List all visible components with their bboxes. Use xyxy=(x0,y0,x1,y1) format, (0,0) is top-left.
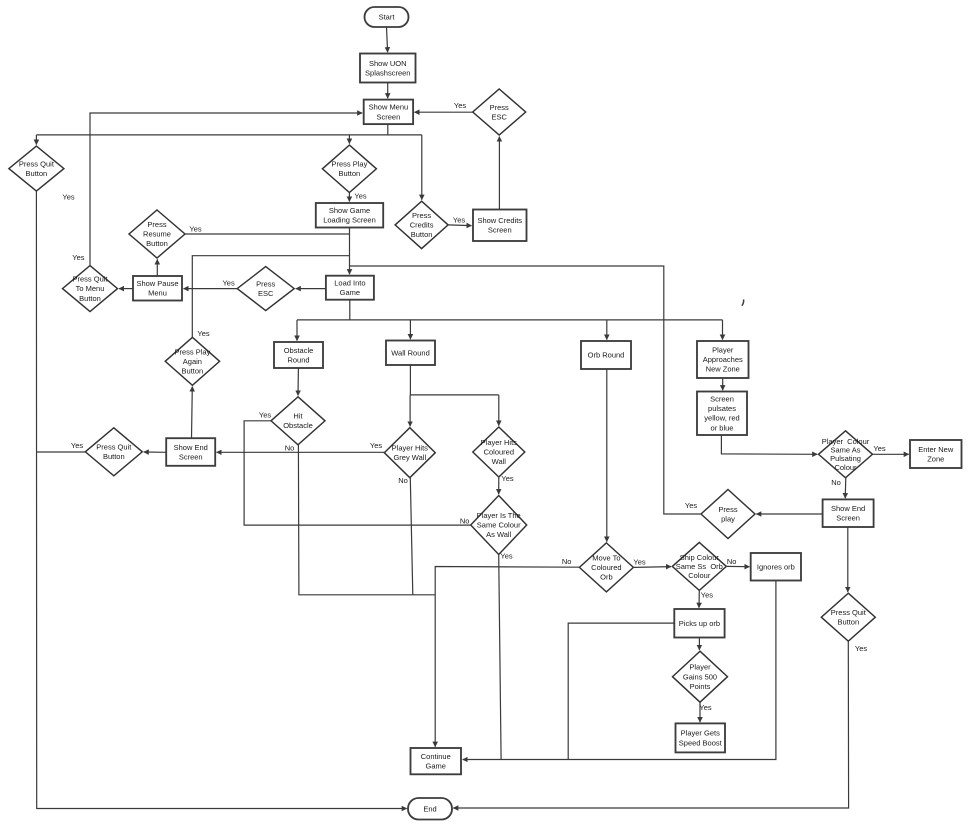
wire Press Resume Button yes join xyxy=(185,225,350,235)
wire Press ESC yes to Show Menu Screen xyxy=(415,101,473,112)
wire Move To Coloured Orb yes to Ship Colour diamond xyxy=(633,558,671,568)
wire Move To Coloured Orb no to Continue Game xyxy=(435,557,579,747)
svg-text:Yes: Yes xyxy=(62,193,74,202)
svg-text:No: No xyxy=(562,557,572,566)
wire Show Menu Screen branch rail xyxy=(36,124,421,135)
process Show End Screen (left) xyxy=(166,438,215,466)
wire Show End Screen (left) to Press Quit Button (mid left) xyxy=(144,451,166,453)
decision Press Quit Button (top left) xyxy=(9,146,64,191)
wire Player Hits Grey Wall yes to Show End Screen xyxy=(217,441,385,452)
decision Press Quit Button (mid left) xyxy=(85,428,142,476)
wire Press Play Again Button yes join xyxy=(192,256,349,338)
svg-text:Player HitsGrey Wall: Player HitsGrey Wall xyxy=(392,444,429,463)
process Show End Screen (right) xyxy=(823,499,874,527)
svg-text:Orb Round: Orb Round xyxy=(588,351,625,360)
label No of Player Is The Same Colour As Wall xyxy=(460,517,470,526)
svg-text:Yes: Yes xyxy=(699,703,711,712)
svg-text:ObstacleRound: ObstacleRound xyxy=(284,346,314,365)
svg-text:Wall Round: Wall Round xyxy=(391,348,430,357)
wire Player Is The Same Colour As Wall yes down xyxy=(499,552,513,760)
terminator Start xyxy=(365,7,409,27)
svg-text:Yes: Yes xyxy=(453,216,465,225)
svg-text:Picks up orb: Picks up orb xyxy=(679,619,720,628)
decision Press Play Again Button xyxy=(165,337,219,385)
process Player Approaches New Zone xyxy=(697,341,749,378)
wire Hit Obstacle no down xyxy=(285,444,435,595)
decision Move To Coloured Orb xyxy=(579,543,633,592)
svg-text:PressESC: PressESC xyxy=(490,103,509,122)
wire Start to Show UON Splashscreen xyxy=(387,27,388,52)
decision Hit Obstacle xyxy=(271,397,325,445)
wire Picks up orb to Continue Game join xyxy=(568,623,674,759)
wire Show UON Splashscreen to Show Menu Screen xyxy=(387,83,389,99)
svg-text:Yes: Yes xyxy=(633,558,645,567)
svg-text:Ignores orb: Ignores orb xyxy=(757,562,795,571)
wire split to Player Hits Coloured Wall xyxy=(498,395,500,426)
svg-text:Player GetsSpeed Boost: Player GetsSpeed Boost xyxy=(679,729,723,748)
decision Press Quit Button (bottom right) xyxy=(821,593,875,641)
svg-text:Yes: Yes xyxy=(685,501,697,510)
process Picks up orb xyxy=(674,609,724,638)
wire Ship Colour yes to Picks up orb xyxy=(699,590,713,607)
svg-text:Yes: Yes xyxy=(354,191,366,200)
svg-text:Yes: Yes xyxy=(873,444,885,453)
wire Obstacle Round to Hit Obstacle xyxy=(297,368,299,395)
wire rail to Orb Round xyxy=(606,320,608,340)
svg-text:Yes: Yes xyxy=(222,279,234,288)
wire rail to Press Credits Button xyxy=(421,135,423,200)
svg-text:Yes: Yes xyxy=(855,644,867,653)
process Show Game Loading Screen xyxy=(316,203,383,228)
wire Player Hits Coloured Wall yes to Player Is The Same Colour As Wall xyxy=(499,474,514,494)
process Player Gets Speed Boost xyxy=(676,723,726,752)
svg-text:Show UONSplashscreen: Show UONSplashscreen xyxy=(365,59,410,78)
decision Player Is The Same Colour As Wall xyxy=(471,496,527,555)
wire Show Pause Menu to Press Resume Button xyxy=(156,259,158,275)
wire Press Quit Button (top left) yes to End (left) xyxy=(36,191,406,808)
process Show Pause Menu xyxy=(133,276,182,301)
process Obstacle Round xyxy=(274,342,323,368)
wire Ship Colour no to Ignores orb xyxy=(726,557,749,567)
svg-text:Yes: Yes xyxy=(454,101,466,110)
svg-text:No: No xyxy=(398,476,408,485)
wire Show Game Loading Screen to Load Into Game xyxy=(349,228,351,275)
wire rail to Wall Round xyxy=(409,320,411,339)
process Orb Round xyxy=(581,341,631,369)
terminator End xyxy=(408,798,452,820)
wire Orb Round to Move To Coloured Orb xyxy=(606,369,608,541)
decision Press Play Button xyxy=(322,145,376,192)
process Ignores orb xyxy=(751,553,801,581)
wire Hit Obstacle yes to Player Is The Same Colour As Wall xyxy=(244,410,470,525)
decision Press ESC (pause) xyxy=(237,267,294,311)
svg-text:Yes: Yes xyxy=(71,441,83,450)
decision Player Gains 500 Points xyxy=(673,651,728,702)
decision Press Quit To Menu Button xyxy=(63,266,118,312)
svg-text:PressESC: PressESC xyxy=(256,279,275,298)
decision Press ESC (top) xyxy=(473,89,526,135)
wire Picks up orb to Player Gains 500 Points xyxy=(698,638,700,650)
decision Player Colour Same As Pulsating Colour xyxy=(819,431,873,478)
svg-text:PressCreditsButton: PressCreditsButton xyxy=(410,211,434,239)
decision Press Credits Button xyxy=(395,201,448,248)
wire Press play yes join xyxy=(350,266,701,514)
wire Screen pulsates to Player Colour diamond xyxy=(721,435,817,454)
svg-text:End: End xyxy=(423,804,436,813)
wire Show End Screen (right) to Press Quit Button (bottom right) xyxy=(847,527,849,592)
process Enter New Zone xyxy=(910,440,962,468)
svg-text:Yes: Yes xyxy=(197,329,209,338)
wire Press Quit Button (mid left) yes join xyxy=(37,441,85,452)
wire Player Colour yes to Enter New Zone xyxy=(873,444,909,454)
wire Player Gains 500 Points yes to Player Gets Speed Boost xyxy=(699,702,711,722)
decision Press play xyxy=(701,490,755,539)
svg-text:Yes: Yes xyxy=(370,441,382,450)
process Screen pulsates yellow red or blue xyxy=(697,392,747,436)
wire Wall Round split xyxy=(410,365,499,395)
wire Player Approaches New Zone to Screen pulsates xyxy=(722,378,724,390)
decision Player Hits Grey Wall xyxy=(384,428,435,478)
svg-text:Yes: Yes xyxy=(72,253,84,262)
wire rail to Player Approaches New Zone xyxy=(722,320,724,340)
wire rail to Press Play Button xyxy=(348,135,350,144)
wire Player Colour no to Show End Screen (right) xyxy=(831,478,846,498)
svg-text:Show GameLoading Screen: Show GameLoading Screen xyxy=(323,206,376,225)
decision Ship Colour Same Ss Orb Colour xyxy=(672,542,726,590)
stray apostrophe mark xyxy=(742,300,744,306)
wire rail to Press Quit Button (top left) xyxy=(35,135,37,145)
process Load Into Game xyxy=(326,276,374,300)
svg-text:No: No xyxy=(460,517,470,526)
decision Player Hits Coloured Wall xyxy=(473,427,525,477)
svg-text:Yes: Yes xyxy=(189,225,201,234)
svg-text:No: No xyxy=(285,444,295,453)
svg-text:Yes: Yes xyxy=(500,552,512,561)
svg-text:Yes: Yes xyxy=(701,590,713,599)
svg-text:Yes: Yes xyxy=(501,474,513,483)
svg-text:Start: Start xyxy=(379,13,396,22)
process Continue Game xyxy=(411,748,462,774)
wire Press Play Button yes to Show Game Loading Screen xyxy=(349,191,366,201)
wire Load Into Game round rail xyxy=(297,300,723,320)
process Wall Round xyxy=(386,341,435,366)
svg-text:Yes: Yes xyxy=(259,410,271,419)
wire Show End Screen (left) to Press Play Again Button xyxy=(191,387,194,439)
wire split to Player Hits Grey Wall xyxy=(409,395,411,426)
wire Ignores orb down to Continue Game xyxy=(463,581,776,760)
wire Press Credits Button yes to Show Credits Screen xyxy=(448,216,471,226)
process Show Credits Screen xyxy=(473,210,527,242)
wire Show Pause Menu to Press Quit To Menu Button xyxy=(119,288,133,290)
wire Press ESC yes to Show Pause Menu xyxy=(184,279,238,289)
wire Show Credits Screen to Press ESC (top) xyxy=(498,137,500,210)
wire Show End Screen (right) to Press play xyxy=(756,513,822,515)
wire Press Quit Button yes to End (right) xyxy=(453,641,867,808)
process Show UON Splashscreen xyxy=(360,54,416,83)
wire Player Hits Grey Wall no down xyxy=(398,476,413,595)
wire Load Into Game to Press ESC (pause) xyxy=(296,288,326,290)
svg-text:No: No xyxy=(727,557,737,566)
wire Press Quit To Menu Button yes to Show Menu Screen xyxy=(72,113,362,265)
process Show Menu Screen xyxy=(364,100,413,125)
svg-text:No: No xyxy=(831,478,841,487)
wire rail to Obstacle Round xyxy=(296,320,298,341)
decision Press Resume Button xyxy=(129,210,185,258)
